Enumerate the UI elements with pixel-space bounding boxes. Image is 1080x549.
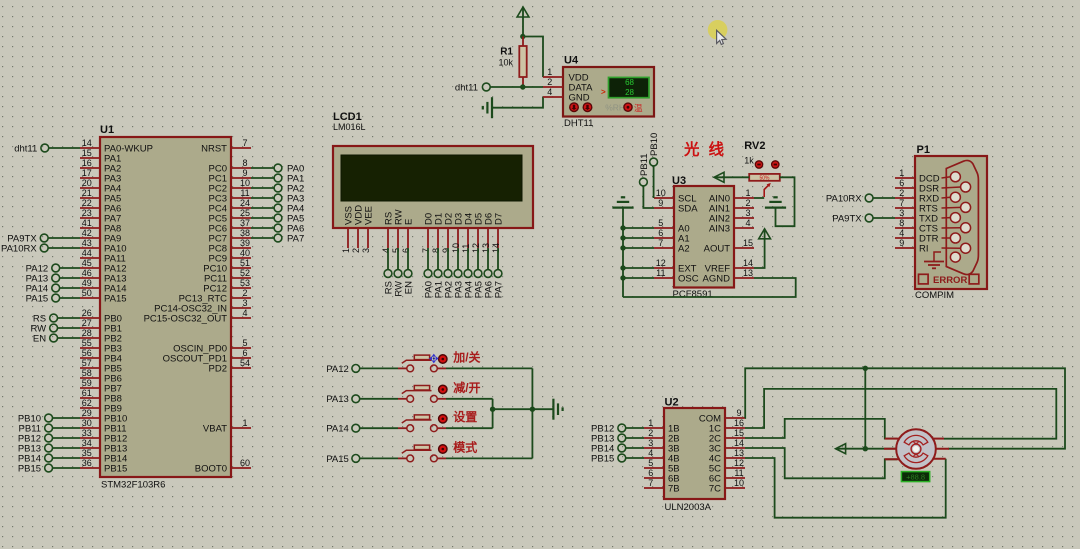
svg-text:dht11: dht11: [455, 82, 478, 93]
svg-text:9: 9: [242, 168, 247, 178]
svg-text:11: 11: [240, 188, 249, 198]
svg-text:5: 5: [648, 458, 653, 468]
svg-text:49: 49: [82, 278, 92, 288]
svg-text:AIN3: AIN3: [709, 223, 730, 234]
svg-text:14: 14: [82, 138, 92, 148]
svg-text:10k: 10k: [498, 58, 513, 68]
svg-text:12: 12: [656, 258, 666, 268]
svg-text:14: 14: [491, 243, 501, 253]
svg-text:2: 2: [745, 198, 750, 208]
svg-text:STM32F103R6: STM32F103R6: [101, 480, 165, 491]
svg-text:PA9TX: PA9TX: [832, 213, 862, 224]
svg-text:25: 25: [240, 208, 250, 218]
svg-text:1k: 1k: [744, 156, 754, 166]
svg-text:61: 61: [82, 388, 92, 398]
svg-text:6: 6: [899, 178, 904, 188]
svg-text:1: 1: [899, 168, 904, 178]
svg-text:PA15: PA15: [26, 293, 49, 304]
svg-text:2: 2: [899, 188, 904, 198]
svg-text:56: 56: [82, 348, 92, 358]
svg-text:13: 13: [734, 448, 744, 458]
svg-text:34: 34: [82, 438, 92, 448]
svg-text:PCF8591: PCF8591: [673, 289, 713, 300]
svg-text:8: 8: [242, 158, 247, 168]
svg-text:模式: 模式: [453, 439, 477, 454]
svg-text:22: 22: [82, 198, 92, 208]
svg-text:3: 3: [648, 438, 653, 448]
svg-text:1: 1: [242, 418, 247, 428]
svg-text:1: 1: [745, 188, 750, 198]
svg-text:A2: A2: [678, 243, 690, 254]
svg-text:NRST: NRST: [201, 143, 227, 154]
svg-text:44: 44: [82, 248, 92, 258]
svg-text:12: 12: [471, 243, 481, 253]
svg-text:PA10RX: PA10RX: [826, 193, 862, 204]
svg-text:15: 15: [734, 428, 744, 438]
svg-text:33: 33: [82, 428, 92, 438]
svg-text:68: 68: [625, 78, 634, 87]
svg-text:PB15: PB15: [104, 463, 127, 474]
svg-text:50%: 50%: [759, 176, 770, 182]
svg-text:4: 4: [381, 248, 391, 253]
svg-text:15: 15: [82, 148, 92, 158]
svg-text:55: 55: [82, 338, 92, 348]
svg-text:20: 20: [82, 178, 92, 188]
svg-text:41: 41: [82, 218, 92, 228]
svg-text:8: 8: [899, 218, 904, 228]
svg-text:9: 9: [899, 238, 904, 248]
svg-text:4: 4: [242, 308, 247, 318]
svg-text:VEE: VEE: [363, 206, 374, 225]
svg-text:PB10: PB10: [649, 133, 660, 156]
svg-text:1: 1: [547, 67, 552, 77]
svg-text:14: 14: [743, 258, 753, 268]
svg-text:62: 62: [82, 398, 92, 408]
svg-text:11: 11: [734, 468, 743, 478]
svg-text:59: 59: [82, 378, 92, 388]
svg-text:U1: U1: [100, 124, 114, 136]
svg-text:R1: R1: [500, 47, 513, 58]
svg-text:AOUT: AOUT: [704, 243, 731, 254]
svg-text:2: 2: [242, 288, 247, 298]
svg-text:PA7: PA7: [287, 233, 304, 244]
svg-text:6: 6: [648, 468, 653, 478]
svg-text:PB11: PB11: [639, 153, 650, 176]
svg-text:2: 2: [547, 77, 552, 87]
svg-text:ULN2003A: ULN2003A: [665, 502, 712, 513]
svg-text:PD2: PD2: [209, 363, 227, 374]
svg-text:42: 42: [82, 228, 92, 238]
svg-text:PA12: PA12: [326, 364, 349, 375]
svg-text:28: 28: [625, 88, 634, 97]
svg-text:LM016L: LM016L: [333, 122, 366, 132]
svg-text:2: 2: [648, 428, 653, 438]
svg-text:26: 26: [82, 308, 92, 318]
svg-text:9: 9: [441, 248, 451, 253]
svg-text:GND: GND: [569, 92, 590, 103]
svg-text:PC15-OSC32_OUT: PC15-OSC32_OUT: [144, 313, 228, 324]
svg-text:U2: U2: [665, 397, 679, 409]
svg-text:温: 温: [634, 103, 643, 113]
svg-text:6: 6: [401, 248, 411, 253]
svg-text:4: 4: [648, 448, 653, 458]
svg-text:PA15: PA15: [326, 454, 349, 465]
svg-text:PA14: PA14: [326, 424, 349, 435]
svg-text:10: 10: [451, 243, 461, 253]
svg-text:9: 9: [658, 198, 663, 208]
svg-text:ERROR: ERROR: [933, 275, 967, 286]
svg-text:7C: 7C: [709, 483, 721, 494]
svg-text:dht11: dht11: [14, 143, 37, 154]
svg-text:45: 45: [82, 258, 92, 268]
svg-text:E: E: [403, 219, 414, 225]
svg-text:P1: P1: [917, 144, 930, 156]
svg-text:38: 38: [240, 228, 250, 238]
svg-text:2: 2: [351, 248, 361, 253]
svg-text:PA13: PA13: [326, 394, 349, 405]
svg-text:4: 4: [745, 218, 750, 228]
svg-text:3: 3: [242, 298, 247, 308]
svg-text:设置: 设置: [453, 409, 477, 424]
svg-text:VBAT: VBAT: [203, 423, 227, 434]
svg-text:35: 35: [82, 448, 92, 458]
svg-text:D7: D7: [493, 213, 504, 225]
svg-text:7B: 7B: [668, 483, 680, 494]
svg-text:17: 17: [82, 168, 92, 178]
svg-text:+88.8: +88.8: [906, 473, 925, 482]
svg-text:EN: EN: [33, 333, 46, 344]
svg-text:RI: RI: [919, 243, 929, 254]
svg-text:加/关: 加/关: [452, 349, 480, 364]
svg-text:PA10RX: PA10RX: [1, 243, 37, 254]
svg-text:8: 8: [431, 248, 441, 253]
svg-text:7: 7: [899, 198, 904, 208]
svg-text:36: 36: [82, 458, 92, 468]
svg-text:3: 3: [745, 208, 750, 218]
svg-text:6: 6: [658, 228, 663, 238]
svg-text:U3: U3: [672, 175, 686, 187]
svg-text:12: 12: [734, 458, 744, 468]
svg-text:7: 7: [658, 238, 663, 248]
svg-text:7: 7: [648, 478, 653, 488]
svg-text:57: 57: [82, 358, 92, 368]
svg-text:RV2: RV2: [744, 140, 765, 152]
svg-text:4: 4: [899, 228, 904, 238]
svg-text:13: 13: [743, 268, 753, 278]
svg-text:27: 27: [82, 318, 92, 328]
svg-text:3: 3: [361, 248, 371, 253]
svg-text:39: 39: [240, 238, 250, 248]
svg-text:EN: EN: [403, 281, 414, 294]
svg-text:21: 21: [82, 188, 92, 198]
svg-text:15: 15: [743, 238, 753, 248]
svg-text:PA7: PA7: [493, 281, 504, 298]
svg-text:光线: 光线: [683, 140, 733, 159]
svg-text:43: 43: [82, 238, 92, 248]
svg-text:PA15: PA15: [104, 293, 127, 304]
svg-text:减/开: 减/开: [453, 380, 480, 395]
svg-text:5: 5: [658, 218, 663, 228]
svg-text:11: 11: [461, 244, 471, 253]
svg-text:AGND: AGND: [703, 273, 731, 284]
svg-text:14: 14: [734, 438, 744, 448]
svg-text:11: 11: [656, 268, 665, 278]
svg-text:28: 28: [82, 328, 92, 338]
svg-text:U4: U4: [564, 55, 579, 67]
svg-text:16: 16: [734, 418, 744, 428]
svg-text:37: 37: [240, 218, 250, 228]
svg-text:13: 13: [481, 243, 491, 253]
svg-text:DHT11: DHT11: [564, 118, 593, 129]
svg-text:29: 29: [82, 408, 92, 418]
svg-text:OSC: OSC: [678, 273, 699, 284]
svg-text:53: 53: [240, 278, 250, 288]
svg-text:PB15: PB15: [591, 453, 614, 464]
svg-text:23: 23: [82, 208, 92, 218]
svg-text:>: >: [601, 88, 606, 97]
svg-text:10: 10: [734, 478, 744, 488]
svg-text:7: 7: [242, 138, 247, 148]
svg-text:24: 24: [240, 198, 250, 208]
svg-text:3: 3: [899, 208, 904, 218]
svg-text:SDA: SDA: [678, 203, 698, 214]
svg-text:BOOT0: BOOT0: [195, 463, 227, 474]
svg-text:9: 9: [736, 408, 741, 418]
svg-text:52: 52: [240, 268, 250, 278]
svg-text:1: 1: [341, 248, 351, 253]
svg-text:60: 60: [240, 458, 250, 468]
svg-text:51: 51: [240, 258, 250, 268]
svg-text:16: 16: [82, 158, 92, 168]
svg-text:COMPIM: COMPIM: [915, 290, 954, 301]
svg-text:4: 4: [547, 87, 552, 97]
svg-text:6: 6: [242, 348, 247, 358]
svg-text:40: 40: [240, 248, 250, 258]
svg-text:58: 58: [82, 368, 92, 378]
svg-text:1: 1: [648, 418, 653, 428]
svg-text:5: 5: [242, 338, 247, 348]
svg-text:5: 5: [391, 248, 401, 253]
svg-text:7: 7: [421, 248, 431, 253]
svg-text:10: 10: [240, 178, 250, 188]
svg-text:10: 10: [656, 188, 666, 198]
svg-text:46: 46: [82, 268, 92, 278]
svg-text:%RH: %RH: [605, 103, 625, 113]
svg-text:30: 30: [82, 418, 92, 428]
svg-text:54: 54: [240, 358, 250, 368]
svg-text:PB15: PB15: [18, 463, 41, 474]
svg-text:50: 50: [82, 288, 92, 298]
